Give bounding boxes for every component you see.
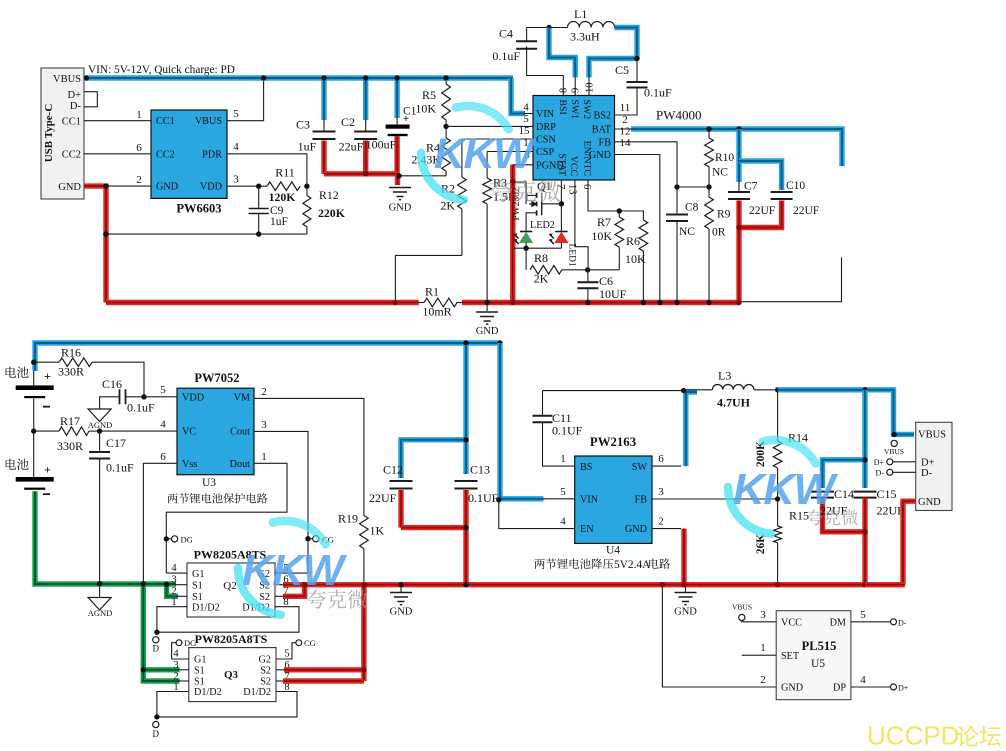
junction xyxy=(84,75,89,80)
svg-text:R12: R12 xyxy=(319,188,339,202)
junction xyxy=(321,75,326,80)
svg-text:0.1uF: 0.1uF xyxy=(127,401,155,415)
wire CC1 xyxy=(84,120,151,122)
svg-text:2: 2 xyxy=(136,174,142,186)
capacitor C5 0.1uF xyxy=(615,59,673,116)
svg-text:C6: C6 xyxy=(599,274,613,288)
svg-text:22UF: 22UF xyxy=(369,491,397,505)
svg-text:PW7052: PW7052 xyxy=(194,371,239,385)
wire PGND pin xyxy=(513,164,533,166)
svg-text:10mR: 10mR xyxy=(422,305,451,319)
capacitor C10 22UF xyxy=(739,161,819,228)
watermark KKW top xyxy=(421,106,537,200)
svg-text:STAT: STAT xyxy=(557,153,568,176)
svg-text:CC2: CC2 xyxy=(156,149,175,160)
capacitor C2 22uF xyxy=(339,78,378,174)
svg-text:GND: GND xyxy=(781,683,803,694)
svg-text:7: 7 xyxy=(555,184,566,189)
IC Q2 PW8205A8TS xyxy=(187,563,275,617)
terminal D- out xyxy=(876,469,916,478)
junction xyxy=(396,173,401,178)
capacitor C8 NC xyxy=(666,187,699,303)
svg-text:220K: 220K xyxy=(318,206,346,220)
svg-text:1: 1 xyxy=(261,451,267,463)
svg-text:VBUS: VBUS xyxy=(195,116,223,127)
svg-text:4: 4 xyxy=(171,563,177,574)
junction xyxy=(862,582,867,587)
svg-text:PDR: PDR xyxy=(202,149,222,160)
wire PGND red column xyxy=(510,165,515,303)
svg-text:D1/D2: D1/D2 xyxy=(194,687,222,698)
svg-text:G1: G1 xyxy=(192,569,204,580)
resistor R5 10K xyxy=(415,81,450,126)
svg-text:3: 3 xyxy=(171,575,176,586)
svg-text:5V2.4A: 5V2.4A xyxy=(614,559,651,571)
svg-text:330R: 330R xyxy=(58,365,84,379)
wire CC2 xyxy=(84,153,151,155)
svg-text:KKW: KKW xyxy=(434,130,537,178)
svg-text:5: 5 xyxy=(560,486,566,498)
svg-text:4: 4 xyxy=(560,516,566,528)
svg-text:6: 6 xyxy=(136,142,142,154)
wire GND out red xyxy=(903,501,916,585)
wire G1 Q2 xyxy=(166,572,187,574)
junction xyxy=(31,428,36,433)
svg-text:+: + xyxy=(44,369,51,383)
wire DRP node xyxy=(446,125,533,127)
svg-text:BS: BS xyxy=(580,462,593,473)
wire blue output rail xyxy=(778,390,914,435)
svg-text:DG: DG xyxy=(184,638,196,648)
junction xyxy=(706,184,711,189)
label buck circuit xyxy=(535,558,614,569)
resistor R8 2K xyxy=(526,248,588,285)
svg-text:AGND: AGND xyxy=(88,608,113,618)
wire PL515 GND riser xyxy=(662,585,776,687)
junction xyxy=(31,360,36,365)
connector J1 USB Type-C xyxy=(41,68,84,199)
resistor R14 200K xyxy=(755,390,808,499)
junction xyxy=(256,184,261,189)
capacitor C4 0.1uF xyxy=(492,27,537,64)
svg-text:PW6603: PW6603 xyxy=(176,202,221,216)
svg-text:L1: L1 xyxy=(574,7,587,21)
junction xyxy=(256,231,261,236)
IC U3 PW7052 xyxy=(177,371,254,489)
svg-text:0.1uF: 0.1uF xyxy=(492,49,520,63)
svg-text:D-: D- xyxy=(898,618,907,627)
svg-text:C13: C13 xyxy=(470,463,490,477)
wire SW2 pin10 xyxy=(588,78,590,96)
junction xyxy=(681,582,686,587)
svg-text:GND: GND xyxy=(156,182,178,193)
svg-text:1K: 1K xyxy=(370,524,385,538)
svg-text:R7: R7 xyxy=(597,215,611,229)
svg-text:VIN: 5V-12V, Quick charge: PD: VIN: 5V-12V, Quick charge: PD xyxy=(88,64,235,76)
svg-text:USB Type-C: USB Type-C xyxy=(43,104,55,163)
svg-text:BSI: BSI xyxy=(557,100,568,115)
wire red rail lower xyxy=(283,582,905,587)
watermark KKW left xyxy=(238,521,348,615)
svg-text:R16: R16 xyxy=(61,346,81,360)
svg-text:S1: S1 xyxy=(194,666,205,677)
junction xyxy=(736,126,741,131)
svg-text:1: 1 xyxy=(560,453,566,465)
wire VIN pin5 xyxy=(543,498,575,500)
svg-text:3: 3 xyxy=(760,609,766,621)
svg-text:2: 2 xyxy=(658,516,664,528)
svg-text:10K: 10K xyxy=(591,229,612,243)
svg-text:C2: C2 xyxy=(341,115,355,129)
junction xyxy=(736,225,741,230)
LED LED2 green xyxy=(514,220,555,248)
svg-text:VIN: VIN xyxy=(580,494,599,505)
resistor R17 330R xyxy=(34,414,100,453)
svg-text:SW: SW xyxy=(632,462,648,473)
wire C11 top xyxy=(543,390,684,392)
svg-text:D: D xyxy=(153,644,160,654)
ground GND main xyxy=(476,305,499,337)
wire red rail right xyxy=(462,300,739,305)
svg-text:R19: R19 xyxy=(338,512,358,526)
resistor R1 10mR xyxy=(419,285,462,319)
terminal CG Q2 xyxy=(305,534,334,544)
IC U2 PW4000 xyxy=(533,96,615,181)
junction xyxy=(497,340,502,345)
svg-text:VCC: VCC xyxy=(568,156,579,176)
wire R2 to red rail xyxy=(395,255,462,302)
svg-text:S2: S2 xyxy=(260,666,271,677)
IC U1 PW6603 xyxy=(151,110,227,216)
wire VBUS blue rail xyxy=(84,75,513,80)
svg-text:4: 4 xyxy=(173,649,179,660)
junction xyxy=(736,300,741,305)
wire D1/D2 Q2 right xyxy=(157,607,299,633)
capacitor C1 100uF polarized xyxy=(366,78,417,174)
wire FB pin12 xyxy=(615,142,678,187)
wire DM pin5 xyxy=(851,621,891,623)
wire GND pin14 xyxy=(615,155,660,303)
svg-text:S1: S1 xyxy=(192,592,203,603)
svg-text:S1: S1 xyxy=(194,677,205,688)
watermark KKW right xyxy=(728,440,839,534)
junction xyxy=(394,75,399,80)
svg-text:KKW: KKW xyxy=(733,465,839,514)
svg-text:GND: GND xyxy=(625,524,647,535)
svg-text:DP: DP xyxy=(833,683,846,694)
svg-text:EN: EN xyxy=(580,524,594,535)
capacitor C17 0.1uF xyxy=(89,431,134,597)
label UCCPD forum xyxy=(867,721,1001,751)
wire blue branch C12 xyxy=(401,440,466,478)
svg-text:13: 13 xyxy=(567,184,578,195)
svg-text:D+: D+ xyxy=(874,458,885,467)
svg-text:R1: R1 xyxy=(425,285,439,299)
svg-text:PL515: PL515 xyxy=(802,639,837,653)
junction xyxy=(496,497,501,502)
svg-text:VIN: VIN xyxy=(536,109,555,120)
junction xyxy=(363,75,368,80)
svg-text:0.1UF: 0.1UF xyxy=(552,424,583,438)
ground GND right xyxy=(674,587,697,618)
wire S1 stubs Q2 xyxy=(175,584,187,586)
svg-text:14: 14 xyxy=(620,137,632,149)
wire U1 VDD pin3 xyxy=(227,185,267,187)
wire BSI pin8 xyxy=(527,47,564,96)
svg-text:VCC: VCC xyxy=(781,618,802,629)
wire BAT blue xyxy=(631,129,842,166)
svg-text:2: 2 xyxy=(171,586,176,597)
svg-text:PW2163: PW2163 xyxy=(590,435,636,449)
junction xyxy=(657,300,662,305)
svg-text:C12: C12 xyxy=(383,463,403,477)
svg-text:D-: D- xyxy=(70,101,82,112)
junction xyxy=(304,184,309,189)
wire rail to battery stub xyxy=(739,257,842,301)
svg-text:R11: R11 xyxy=(275,166,295,180)
svg-text:GND: GND xyxy=(58,182,81,193)
junction xyxy=(261,75,266,80)
svg-text:0.1UF: 0.1UF xyxy=(468,491,499,505)
wire red rail end xyxy=(865,582,905,587)
svg-text:C5: C5 xyxy=(615,63,629,77)
svg-text:GND: GND xyxy=(390,607,413,618)
label protection circuit xyxy=(168,493,268,503)
svg-text:CC1: CC1 xyxy=(156,116,175,127)
junction xyxy=(775,387,780,392)
junction xyxy=(546,25,551,30)
connector J2 VBUS out xyxy=(916,422,952,510)
capacitor C3 1uF xyxy=(296,78,336,174)
watermark kuakewei left xyxy=(307,590,367,609)
svg-text:C10: C10 xyxy=(786,180,805,192)
terminal D Q2 xyxy=(153,637,160,654)
junction xyxy=(141,394,146,399)
svg-text:VBUS: VBUS xyxy=(918,430,946,441)
svg-text:BS2: BS2 xyxy=(593,111,611,122)
wire VDD pin5 xyxy=(144,396,177,398)
svg-text:3: 3 xyxy=(261,419,267,431)
svg-text:22UF: 22UF xyxy=(877,504,905,518)
svg-text:CC1: CC1 xyxy=(62,116,81,127)
terminal D+ out xyxy=(874,458,916,467)
svg-text:R9: R9 xyxy=(717,209,731,221)
junction xyxy=(634,56,639,61)
wire Cout pin3 xyxy=(254,431,308,573)
svg-text:3.3uH: 3.3uH xyxy=(570,30,600,44)
terminal D+ DP xyxy=(891,684,909,693)
junction xyxy=(103,183,108,188)
wire R12 C9 return xyxy=(106,233,307,235)
ground GND under C1 xyxy=(389,188,412,214)
wire CSP xyxy=(487,151,533,153)
junction xyxy=(510,179,515,184)
svg-text:Q3: Q3 xyxy=(224,669,239,681)
svg-text:2: 2 xyxy=(173,671,178,682)
svg-text:D1/D2: D1/D2 xyxy=(192,603,220,614)
wire D1/D2 Q2 left xyxy=(157,607,187,633)
svg-text:CC2: CC2 xyxy=(62,150,81,161)
transistor Q1 PW2302 xyxy=(512,179,561,231)
svg-text:1: 1 xyxy=(760,642,766,654)
wire EN/NTC pin6 column xyxy=(588,180,619,211)
svg-text:+: + xyxy=(44,463,51,477)
terminal D Q3 xyxy=(153,721,160,739)
wire green down to Q3 xyxy=(143,584,179,681)
LED LED1 red xyxy=(549,204,576,267)
wire S2 pin7 Q3 red xyxy=(276,680,283,682)
svg-text:6: 6 xyxy=(581,184,592,189)
svg-text:EN/NTC: EN/NTC xyxy=(582,141,593,176)
terminal CG Q3 xyxy=(276,638,316,659)
svg-text:DG: DG xyxy=(181,535,193,545)
svg-text:5: 5 xyxy=(284,649,289,660)
svg-text:C17: C17 xyxy=(106,436,126,450)
svg-text:DRP: DRP xyxy=(536,122,556,133)
watermark kuakewei right xyxy=(807,509,858,525)
IC U4 PW2163 xyxy=(575,435,652,557)
svg-text:UCCPD: UCCPD xyxy=(867,721,959,751)
svg-text:4: 4 xyxy=(233,141,239,153)
terminal VBUS out xyxy=(884,440,904,456)
svg-text:U5: U5 xyxy=(811,658,825,670)
resistor R15 26K xyxy=(755,499,809,585)
wire red C12 to C13 xyxy=(401,525,466,530)
svg-text:R8: R8 xyxy=(534,251,548,265)
svg-text:DM: DM xyxy=(830,618,846,629)
wire EN pin4 xyxy=(499,500,575,529)
wire battery blue rail xyxy=(35,343,500,371)
svg-text:S2: S2 xyxy=(260,677,271,688)
svg-text:10: 10 xyxy=(584,83,595,94)
wire D+ D- stub xyxy=(84,92,97,107)
svg-text:3: 3 xyxy=(173,660,178,671)
resistor R10 NC xyxy=(705,129,735,187)
junction xyxy=(681,388,686,393)
svg-text:VDD: VDD xyxy=(200,182,222,193)
svg-text:LED2: LED2 xyxy=(530,220,555,231)
svg-text:4: 4 xyxy=(860,674,866,686)
svg-text:C14: C14 xyxy=(834,487,854,501)
svg-text:U3: U3 xyxy=(202,477,216,489)
resistor R11 120K xyxy=(267,166,300,205)
svg-text:GND: GND xyxy=(389,203,412,214)
svg-text:C16: C16 xyxy=(102,377,122,391)
resistor R4 2.43K xyxy=(411,126,450,175)
label battery1 xyxy=(6,366,29,378)
svg-text:R10: R10 xyxy=(715,152,734,164)
svg-text:VBUS: VBUS xyxy=(53,74,81,85)
svg-text:CG: CG xyxy=(304,638,316,648)
svg-text:KKW: KKW xyxy=(242,546,348,595)
wire D1/D2 Q3 right xyxy=(157,692,297,717)
capacitor C6 10UF xyxy=(577,270,626,303)
junction xyxy=(523,246,528,251)
wire red rail left xyxy=(106,300,419,305)
svg-text:VBUS: VBUS xyxy=(732,603,752,612)
capacitor C16 0.1uF xyxy=(100,377,155,415)
svg-text:Vss: Vss xyxy=(182,459,197,470)
ground AGND C16 xyxy=(88,409,113,430)
svg-text:22UF: 22UF xyxy=(749,205,775,217)
junction xyxy=(484,300,489,305)
capacitor C15 22UF xyxy=(854,390,905,585)
svg-text:NC: NC xyxy=(712,167,728,179)
svg-text:3: 3 xyxy=(233,174,239,186)
junction xyxy=(892,432,897,437)
junction xyxy=(585,267,590,272)
svg-text:C8: C8 xyxy=(685,202,699,214)
svg-text:D-: D- xyxy=(876,469,885,478)
junction xyxy=(443,124,448,129)
junction xyxy=(361,667,366,672)
junction xyxy=(141,667,146,672)
svg-text:100uF: 100uF xyxy=(366,138,397,152)
wire GND to U1 xyxy=(106,185,151,187)
resistor R16 330R xyxy=(34,346,144,397)
svg-text:5: 5 xyxy=(160,384,166,396)
svg-text:6: 6 xyxy=(658,453,664,465)
svg-text:PW4000: PW4000 xyxy=(656,108,702,123)
wire VC pin4 xyxy=(100,430,177,432)
junction xyxy=(862,529,867,534)
svg-text:Dout: Dout xyxy=(230,459,251,470)
svg-text:6: 6 xyxy=(160,451,166,463)
svg-text:120K: 120K xyxy=(269,190,297,204)
wire VM pin2 to R19 xyxy=(254,398,364,515)
junction xyxy=(443,75,448,80)
junction xyxy=(154,630,159,635)
resistor R7 10K xyxy=(591,211,623,270)
wire G2 Q2 to CG xyxy=(275,572,308,574)
wire red drop to Q3 xyxy=(361,586,366,681)
wire SW pin6 blue riser xyxy=(652,465,681,467)
junction xyxy=(154,714,159,719)
svg-text:D: D xyxy=(153,729,160,739)
svg-text:D1/D2: D1/D2 xyxy=(243,687,271,698)
wire SET stub xyxy=(742,654,776,656)
label battery2 xyxy=(6,458,29,470)
junction xyxy=(463,340,468,345)
svg-text:0.1uF: 0.1uF xyxy=(644,86,672,100)
wire R7 bottom xyxy=(588,269,620,271)
svg-text:8: 8 xyxy=(559,88,570,93)
junction xyxy=(862,457,867,462)
junction xyxy=(463,525,468,530)
svg-text:12: 12 xyxy=(620,126,631,138)
resistor R12 220K xyxy=(303,186,346,234)
wire CSN xyxy=(462,138,533,140)
junction xyxy=(97,581,102,586)
wire S2 pin6 Q3 red xyxy=(276,669,284,671)
svg-text:R17: R17 xyxy=(60,414,80,428)
wire BAT pin2 xyxy=(615,128,635,130)
junction xyxy=(393,300,398,305)
junction xyxy=(775,582,780,587)
svg-text:1: 1 xyxy=(136,109,142,121)
terminal DG Q2 xyxy=(164,535,193,545)
junction xyxy=(302,582,307,587)
svg-text:1uF: 1uF xyxy=(298,140,317,154)
junction xyxy=(463,437,468,442)
svg-text:0R: 0R xyxy=(712,227,726,239)
svg-text:VBUS: VBUS xyxy=(884,447,904,456)
svg-text:11: 11 xyxy=(620,102,631,114)
junction xyxy=(674,184,679,189)
svg-text:C4: C4 xyxy=(499,27,513,41)
wire VCC pin13 column xyxy=(575,180,588,270)
svg-text:PW2302: PW2302 xyxy=(512,187,522,221)
